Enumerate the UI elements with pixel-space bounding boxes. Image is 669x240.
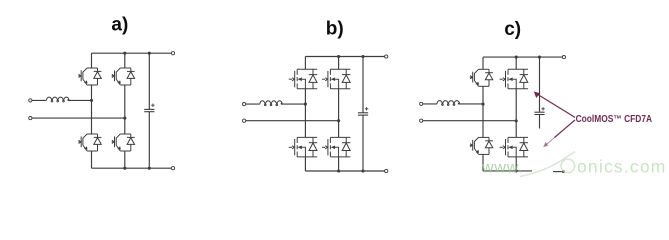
junction node c: capacitor to top rail [538, 56, 541, 59]
junction node b: input 2 to right leg [337, 119, 340, 122]
wire input line 2 b [246, 120, 339, 122]
callout lower arrow [555, 120, 576, 138]
junction node a: right leg to top rail [123, 52, 126, 55]
output terminal bottom c [562, 170, 565, 173]
transistor top-right c [500, 69, 528, 89]
wire left leg c [482, 57, 484, 171]
transistor bottom-right b [322, 137, 350, 157]
capacitor plus sign c [541, 107, 544, 110]
wire top rail b [305, 56, 384, 58]
junction node c: right leg to top rail [515, 56, 518, 59]
callout lower arrowhead [543, 142, 548, 148]
transistor bottom-right c [500, 137, 528, 157]
svg-text:c): c) [504, 19, 521, 40]
junction node c: input 2 to right leg [515, 119, 518, 122]
capacitor C a [144, 109, 154, 111]
wire left leg b [304, 57, 306, 172]
transistor top-right b [322, 69, 350, 89]
input terminal 2 b [243, 119, 246, 122]
junction node b: right leg to bottom rail [337, 169, 340, 172]
svg-text:CoolMOS™ CFD7A: CoolMOS™ CFD7A [576, 114, 653, 125]
junction node a: capacitor to bottom rail [148, 167, 151, 170]
wire top rail c [483, 56, 562, 58]
transistor top-left c [470, 69, 493, 86]
junction node c: right leg to bottom rail [515, 169, 518, 172]
capacitor C c [534, 112, 544, 114]
wire bottom rail c [483, 170, 532, 172]
junction node c: inductor to left leg [481, 103, 484, 106]
junction node b: right leg to top rail [337, 55, 340, 58]
transistor bottom-right a [112, 134, 135, 151]
wire right leg a [124, 53, 126, 168]
input terminal 2 a [29, 117, 32, 120]
output terminal bottom a [171, 167, 174, 170]
output terminal top c [562, 56, 565, 59]
wire input line 2 a [32, 117, 125, 119]
svg-text:b): b) [326, 18, 344, 39]
wire input line 2 c [423, 120, 516, 122]
input terminal 1 c [420, 102, 423, 105]
input terminal 2 c [420, 119, 423, 122]
wire right leg c [515, 57, 517, 171]
wire bottom rail c right segment [553, 171, 562, 173]
junction node a: capacitor to top rail [148, 52, 151, 55]
capacitor plus sign b [365, 107, 368, 110]
wire bottom rail a [92, 167, 172, 169]
input terminal 1 b [243, 103, 246, 106]
transistor bottom-left c [470, 137, 493, 154]
wire capacitor branch c [539, 57, 541, 128]
transistor top-left a [78, 68, 101, 85]
wire left leg a [91, 53, 93, 168]
junction node a: right leg to bottom rail [123, 167, 126, 170]
wire input line 1 b [246, 103, 306, 105]
svg-text:a): a) [111, 15, 128, 36]
capacitor C b [358, 113, 368, 115]
transistor top-right a [112, 68, 135, 85]
wire capacitor branch a [148, 53, 150, 168]
wire input line 1 c [423, 103, 483, 105]
junction node b: capacitor to bottom rail [361, 169, 364, 172]
watermark swoosh [520, 152, 575, 177]
transistor bottom-left b [289, 137, 317, 157]
svg-text:www.: www. [481, 159, 523, 176]
transistor top-left b [289, 69, 317, 89]
output terminal top a [171, 52, 174, 55]
callout upper arrowhead [534, 92, 541, 99]
inductor L a [47, 97, 70, 102]
junction node a: inductor to left leg [90, 99, 93, 102]
capacitor plus sign a [151, 104, 154, 107]
inductor L c [437, 101, 460, 106]
inductor L b [260, 101, 283, 106]
wire top rail a [92, 52, 172, 54]
svg-text:onics.com: onics.com [577, 157, 667, 177]
input terminal 1 a [29, 99, 32, 102]
junction node a: input 2 to right leg [123, 117, 126, 120]
junction node b: capacitor to top rail [361, 55, 364, 58]
output terminal bottom b [385, 169, 388, 172]
wire bottom rail b [305, 170, 384, 172]
output terminal top b [385, 55, 388, 58]
watermark ring logo [561, 159, 575, 173]
transistor bottom-left a [78, 134, 101, 151]
callout upper arrow [537, 94, 575, 117]
callout lower arrow faded part [546, 138, 555, 146]
wire right leg b [338, 57, 340, 172]
wire input line 1 a [32, 99, 92, 101]
junction node b: inductor to left leg [304, 103, 307, 106]
wire capacitor branch b [362, 57, 364, 172]
